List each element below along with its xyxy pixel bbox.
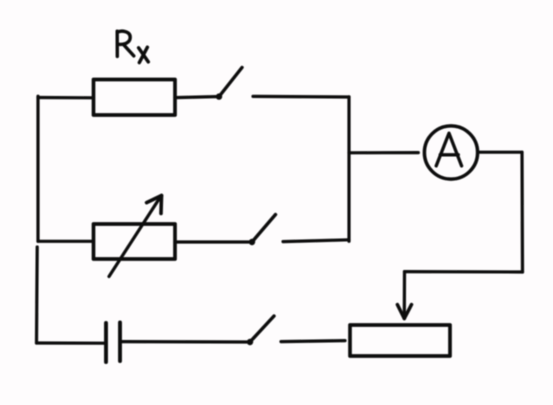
wire ammeter to right corner xyxy=(478,151,522,154)
wire left to variable resistor xyxy=(38,240,94,243)
wire variable resistor to switch S2 xyxy=(175,240,249,243)
rheostat wiper arrow xyxy=(397,272,411,319)
wire switch S1 to corner xyxy=(253,95,349,99)
label Rx xyxy=(117,31,148,62)
wire right-middle vertical xyxy=(347,97,350,242)
wire top-left horizontal xyxy=(38,96,94,100)
wire left vertical lower xyxy=(35,247,39,343)
wire bottom-left horizontal xyxy=(37,341,105,344)
variable resistor box xyxy=(94,224,176,259)
wire switch S3 to rheostat xyxy=(281,341,345,342)
wire left vertical upper xyxy=(36,96,39,241)
wire lower-right horizontal xyxy=(405,270,523,274)
switch S1 xyxy=(216,68,242,100)
wire battery to switch S3 xyxy=(120,340,247,344)
battery cell plate right xyxy=(118,323,122,362)
variable resistor arrow xyxy=(109,196,162,277)
wire to ammeter xyxy=(349,151,418,154)
wire Rx to switch S1 xyxy=(175,97,216,98)
switch S2 xyxy=(249,215,276,246)
resistor Rx xyxy=(94,80,176,116)
wire switch S2 to corner xyxy=(283,240,349,242)
battery cell plate left xyxy=(104,323,108,362)
rheostat box xyxy=(350,325,450,356)
ammeter A xyxy=(424,126,477,179)
switch S3 xyxy=(247,316,274,345)
wire right vertical xyxy=(520,152,524,272)
